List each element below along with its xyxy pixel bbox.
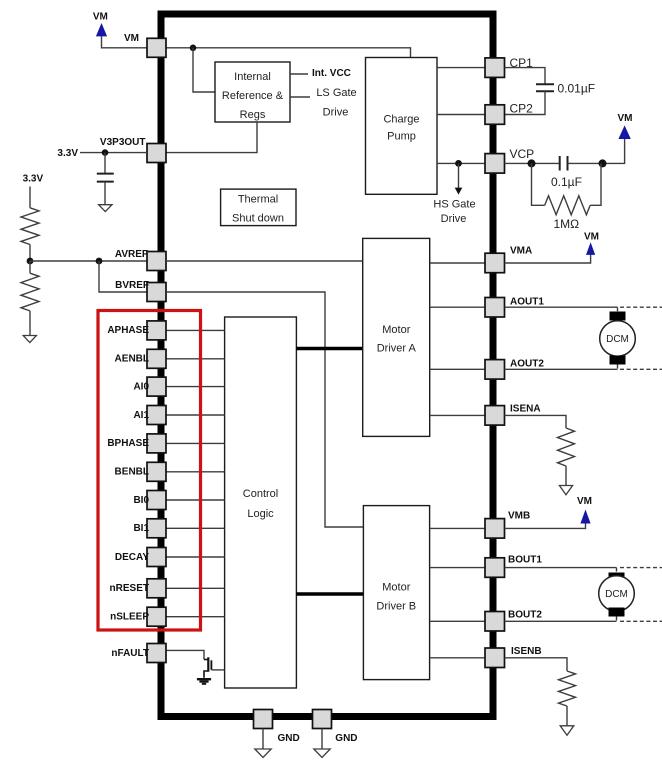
ground (divider) <box>23 336 36 343</box>
block: Thermal Shut down <box>221 189 296 226</box>
wire AOUT2 to motor <box>505 368 618 370</box>
wire BOUT2 to motor <box>505 620 617 622</box>
wire AENBL to Control Logic <box>166 358 225 360</box>
pin AOUT2 <box>485 359 544 380</box>
svg-text:GND: GND <box>335 733 357 744</box>
svg-text:Thermal: Thermal <box>238 194 278 206</box>
svg-text:CP2: CP2 <box>510 102 534 116</box>
wire VM pin to internal node <box>166 48 411 58</box>
svg-text:ISENA: ISENA <box>510 404 541 415</box>
svg-text:Int. VCC: Int. VCC <box>312 68 351 79</box>
resistor R4 (ISENA sense) <box>558 428 575 485</box>
wire dashed stub to motor B top terminal <box>616 568 618 573</box>
wire AVREF to Motor Driver A <box>166 260 363 262</box>
svg-text:nSLEEP: nSLEEP <box>110 612 149 623</box>
label HS Gate Drive <box>433 199 475 225</box>
svg-text:VM: VM <box>577 496 592 507</box>
pin VMA <box>485 246 532 273</box>
svg-text:Motor: Motor <box>382 582 410 594</box>
wire Motor Driver B to BOUT1 <box>430 567 485 569</box>
svg-text:Pump: Pump <box>387 131 416 143</box>
svg-text:BVREF: BVREF <box>115 280 149 291</box>
svg-text:Shut down: Shut down <box>232 213 284 225</box>
wire Regs block to V3P3OUT pin <box>166 122 257 153</box>
pin GND 1 <box>254 710 300 745</box>
wire VM junction down to Internal Reference block <box>193 48 215 92</box>
svg-text:BENBL: BENBL <box>115 467 149 478</box>
wire ISENA to sense resistor <box>505 415 567 428</box>
block: Motor Driver B <box>363 506 429 680</box>
wire nSLEEP to Control Logic <box>166 616 225 618</box>
pin CP1 <box>485 56 533 77</box>
svg-text:3.3V: 3.3V <box>57 148 78 159</box>
wire nRESET to Control Logic <box>166 587 225 589</box>
svg-text:DCM: DCM <box>605 589 628 600</box>
transistor Q1 (open-drain nFAULT) <box>204 657 211 678</box>
svg-text:AOUT1: AOUT1 <box>510 297 544 308</box>
svg-text:1MΩ: 1MΩ <box>554 217 580 231</box>
svg-text:Motor: Motor <box>382 324 410 336</box>
motor DCM A <box>600 312 636 365</box>
svg-text:APHASE: APHASE <box>107 325 149 336</box>
resistor R5 (ISENB sense) <box>559 671 576 726</box>
svg-text:Internal: Internal <box>234 71 271 83</box>
pin APHASE <box>107 321 166 340</box>
block: Motor Driver A <box>363 238 430 436</box>
block U: Internal Reference & Regs <box>215 62 290 122</box>
pin ISENB <box>485 646 542 668</box>
pin BENBL <box>115 462 166 481</box>
resistor R1 (divider upper) <box>21 208 39 245</box>
svg-text:DCM: DCM <box>606 334 629 345</box>
wire GND1 to ground <box>262 729 264 749</box>
pin BOUT2 <box>485 610 542 632</box>
svg-text:Driver B: Driver B <box>376 601 416 613</box>
wire BVREF to Motor Driver B <box>166 292 363 527</box>
svg-text:Logic: Logic <box>247 508 274 520</box>
wire AI1 to Control Logic <box>166 414 225 416</box>
svg-text:VMB: VMB <box>508 511 530 522</box>
chip outline (device boundary) <box>161 14 493 717</box>
pin ISENA <box>485 404 541 426</box>
wire Charge Pump to VCP <box>437 162 485 164</box>
wire R1 to AVREF node <box>29 245 31 262</box>
ground (nFAULT transistor source, chassis style) <box>197 679 211 684</box>
junction HS gate drive branch <box>455 160 462 167</box>
svg-text:AENBL: AENBL <box>115 354 149 365</box>
wire BI1 to Control Logic <box>166 527 225 529</box>
wire Charge Pump to CP1 <box>437 67 485 69</box>
wire Motor Driver B to BOUT2 <box>430 620 485 622</box>
wire BOUT1 to motor <box>505 567 617 569</box>
wire BPHASE to Control Logic <box>166 442 225 444</box>
junction at bypass capacitor <box>102 149 109 156</box>
ground (ISENA) <box>559 486 572 495</box>
wire Motor Driver A to AOUT1 <box>430 306 485 308</box>
pin CP2 <box>485 102 533 125</box>
svg-text:ISENB: ISENB <box>511 646 542 657</box>
pin VM <box>124 33 166 57</box>
pin BVREF <box>115 280 166 302</box>
svg-text:DECAY: DECAY <box>115 552 149 563</box>
wire AOUT1 dashed continuation <box>620 306 662 308</box>
svg-text:nFAULT: nFAULT <box>111 648 149 659</box>
net VM (top-left supply) <box>93 11 108 36</box>
pin nRESET <box>110 579 166 598</box>
pin AOUT1 <box>485 297 544 318</box>
svg-text:Driver A: Driver A <box>377 343 417 355</box>
wire BOUT2 dashed continuation <box>620 620 662 622</box>
wire VMB to VM <box>505 523 586 528</box>
svg-text:BOUT2: BOUT2 <box>508 610 542 621</box>
pin DECAY <box>115 548 166 567</box>
capacitor C1 (V3P3OUT bypass) <box>97 153 114 205</box>
svg-text:AI1: AI1 <box>133 410 149 421</box>
motor DCM B <box>599 573 635 617</box>
wire BOUT1 dashed continuation <box>620 567 662 569</box>
wire Motor Driver B to ISENB <box>430 657 485 659</box>
wire bus Control Logic to Motor Driver B (thick) <box>296 592 363 596</box>
wire stub Int. VCC <box>290 73 308 75</box>
node AVREF divider tap <box>27 258 34 265</box>
resistor R3 1Mohm (VCP bleed) <box>532 163 602 231</box>
net VM (VMB supply) <box>577 496 592 524</box>
wire divider tap to AVREF pin <box>30 260 147 262</box>
ground (ISENB) <box>560 726 574 736</box>
pin nSLEEP <box>110 607 166 626</box>
wire storage cap to VM <box>568 139 625 164</box>
wire VMA to VM <box>505 255 591 264</box>
svg-text:Drive: Drive <box>323 106 349 118</box>
pin BPHASE <box>107 434 166 453</box>
svg-text:VM: VM <box>93 11 108 22</box>
svg-text:VM: VM <box>618 113 633 124</box>
wire 3.3V to R1 <box>29 187 31 208</box>
pin V3P3OUT <box>100 137 166 163</box>
svg-text:3.3V: 3.3V <box>23 174 44 185</box>
wire stub LS Gate Drive <box>290 96 310 98</box>
pin AI0 <box>133 377 166 396</box>
wire Charge Pump to CP2 <box>437 114 485 116</box>
wire VM arrow to VM pin <box>102 36 148 48</box>
svg-text:Charge: Charge <box>383 114 419 126</box>
svg-text:VM: VM <box>124 33 139 44</box>
svg-text:Regs: Regs <box>240 109 266 121</box>
wire 3.3V to V3P3OUT pin <box>80 152 147 154</box>
annotation: red highlight box around control inputs <box>98 311 201 631</box>
wire DECAY to Control Logic <box>166 556 225 558</box>
svg-text:LS Gate: LS Gate <box>316 87 356 99</box>
svg-text:0.1µF: 0.1µF <box>551 175 582 189</box>
wire CP1 to flying capacitor <box>505 68 546 84</box>
net VM (VMA supply) <box>584 232 599 255</box>
pin AVREF <box>115 249 166 271</box>
wire Motor Driver B to VMB <box>430 527 485 529</box>
svg-text:AI0: AI0 <box>133 381 149 392</box>
svg-text:BPHASE: BPHASE <box>107 438 149 449</box>
pin BI1 <box>133 519 166 538</box>
block: Control Logic <box>225 317 297 688</box>
wire BI0 to Control Logic <box>166 499 225 501</box>
wire gate to Control Logic <box>211 669 224 671</box>
wire dashed stub to motor A top terminal <box>617 307 619 312</box>
pin AENBL <box>115 349 166 368</box>
wire APHASE to Control Logic <box>166 329 225 331</box>
svg-text:0.01µF: 0.01µF <box>558 82 596 96</box>
svg-text:VCP: VCP <box>510 147 535 161</box>
junction BVREF branch <box>96 258 103 265</box>
wire dashed stub motor B bottom to BOUT2 <box>616 617 618 622</box>
wire flying capacitor to CP2 <box>505 91 546 114</box>
capacitor C3 0.1uF (VCP storage) <box>551 156 582 189</box>
arrow HS Gate Drive <box>455 163 463 194</box>
wire GND2 to ground <box>321 729 323 749</box>
block: Charge Pump <box>366 58 438 195</box>
wire AOUT2 dashed continuation <box>620 368 662 370</box>
ground (GND2) <box>314 749 330 758</box>
pin VMB <box>485 511 530 539</box>
wire ISENB to sense resistor <box>505 658 568 671</box>
wire AOUT1 to motor <box>505 306 618 308</box>
net VM (VCP pull) <box>618 113 633 139</box>
svg-text:BI0: BI0 <box>133 495 149 506</box>
svg-text:AOUT2: AOUT2 <box>510 359 544 370</box>
svg-text:GND: GND <box>278 733 300 744</box>
pin BI0 <box>133 491 166 510</box>
svg-text:VMA: VMA <box>510 246 532 257</box>
svg-text:HS Gate: HS Gate <box>433 199 475 211</box>
label LS Gate Drive <box>316 87 356 118</box>
svg-text:BI1: BI1 <box>133 523 149 534</box>
pin VCP <box>485 147 534 173</box>
wire nFAULT to transistor drain <box>166 650 204 659</box>
svg-text:Drive: Drive <box>441 213 467 225</box>
junction VCP node A <box>528 159 536 167</box>
wire Motor Driver A to ISENA <box>430 414 485 416</box>
svg-text:BOUT1: BOUT1 <box>508 555 542 566</box>
capacitor C2 0.01uF (flying) <box>536 82 595 96</box>
pin AI1 <box>133 406 166 425</box>
resistor R2 (divider lower) <box>21 261 39 335</box>
svg-text:V3P3OUT: V3P3OUT <box>100 137 146 148</box>
wire AI0 to Control Logic <box>166 386 225 388</box>
ground (GND1) <box>255 749 271 758</box>
wire BENBL to Control Logic <box>166 471 225 473</box>
svg-text:Control: Control <box>243 488 278 500</box>
pin BOUT1 <box>485 555 542 578</box>
wire Motor Driver A to AOUT2 <box>430 368 485 370</box>
pin GND 2 <box>313 710 358 745</box>
wire bus Control Logic to Motor Driver A (thick) <box>296 347 362 351</box>
ground (V3P3OUT bypass) <box>99 205 112 212</box>
wire branch to BVREF pin <box>99 261 147 292</box>
junction VCP node B <box>599 159 607 167</box>
junction on VM internal wire <box>190 45 197 52</box>
svg-text:nRESET: nRESET <box>110 583 149 594</box>
wire VCP to storage cap <box>505 162 560 164</box>
wire Motor Driver A to VMA <box>430 262 485 264</box>
svg-text:Reference &: Reference & <box>222 90 284 102</box>
pin nFAULT <box>111 644 166 663</box>
svg-text:VM: VM <box>584 232 599 243</box>
svg-text:AVREF: AVREF <box>115 249 148 260</box>
wire dashed stub motor A bottom to AOUT2 <box>617 365 619 370</box>
